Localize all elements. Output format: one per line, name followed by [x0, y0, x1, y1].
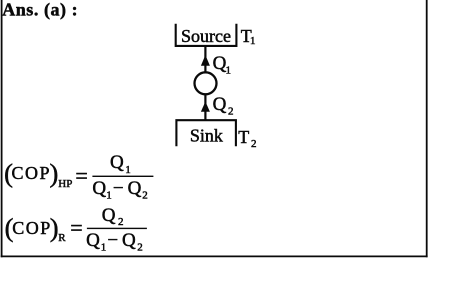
wire lower — [204, 95, 206, 121]
svg-text:Source: Source — [181, 26, 231, 46]
svg-text:2: 2 — [142, 189, 148, 201]
svg-text:1: 1 — [226, 65, 232, 77]
arrow up Q2 — [201, 102, 210, 112]
svg-text:−: − — [113, 178, 124, 199]
svg-text:COP: COP — [12, 218, 52, 238]
svg-text:T: T — [238, 127, 249, 147]
heat pump circle — [195, 72, 217, 94]
svg-text:HP: HP — [58, 178, 72, 190]
svg-text:Sink: Sink — [190, 126, 223, 146]
svg-text:COP: COP — [12, 163, 52, 183]
sink box — [176, 120, 236, 146]
svg-text:1: 1 — [250, 35, 256, 47]
svg-text:): ) — [50, 158, 59, 188]
cell border left — [1, 0, 3, 257]
svg-text:1: 1 — [125, 164, 131, 176]
svg-text:Ans. (a) :: Ans. (a) : — [2, 0, 78, 21]
svg-text:Q: Q — [110, 152, 124, 173]
svg-text:R: R — [58, 232, 66, 244]
svg-text:Q: Q — [92, 178, 106, 199]
wire upper — [204, 46, 206, 73]
svg-text:Q: Q — [128, 178, 142, 199]
svg-text:Q: Q — [213, 94, 227, 115]
svg-text:Q: Q — [86, 230, 100, 251]
svg-text:2: 2 — [251, 138, 257, 150]
svg-text:1: 1 — [106, 189, 112, 201]
cell border right — [426, 0, 428, 257]
svg-text:=: = — [70, 215, 82, 240]
svg-text:Q: Q — [102, 205, 116, 226]
svg-text:2: 2 — [228, 106, 234, 118]
arrow up Q1 — [201, 55, 210, 66]
svg-text:−: − — [107, 230, 118, 251]
svg-text:=: = — [75, 163, 87, 188]
svg-text:): ) — [50, 213, 59, 243]
svg-text:Q: Q — [122, 230, 136, 251]
svg-text:2: 2 — [137, 241, 143, 253]
source box — [176, 24, 237, 46]
svg-text:2: 2 — [118, 216, 124, 228]
svg-text:Q: Q — [213, 53, 227, 74]
cell border bottom — [1, 255, 428, 257]
svg-text:1: 1 — [101, 241, 107, 253]
